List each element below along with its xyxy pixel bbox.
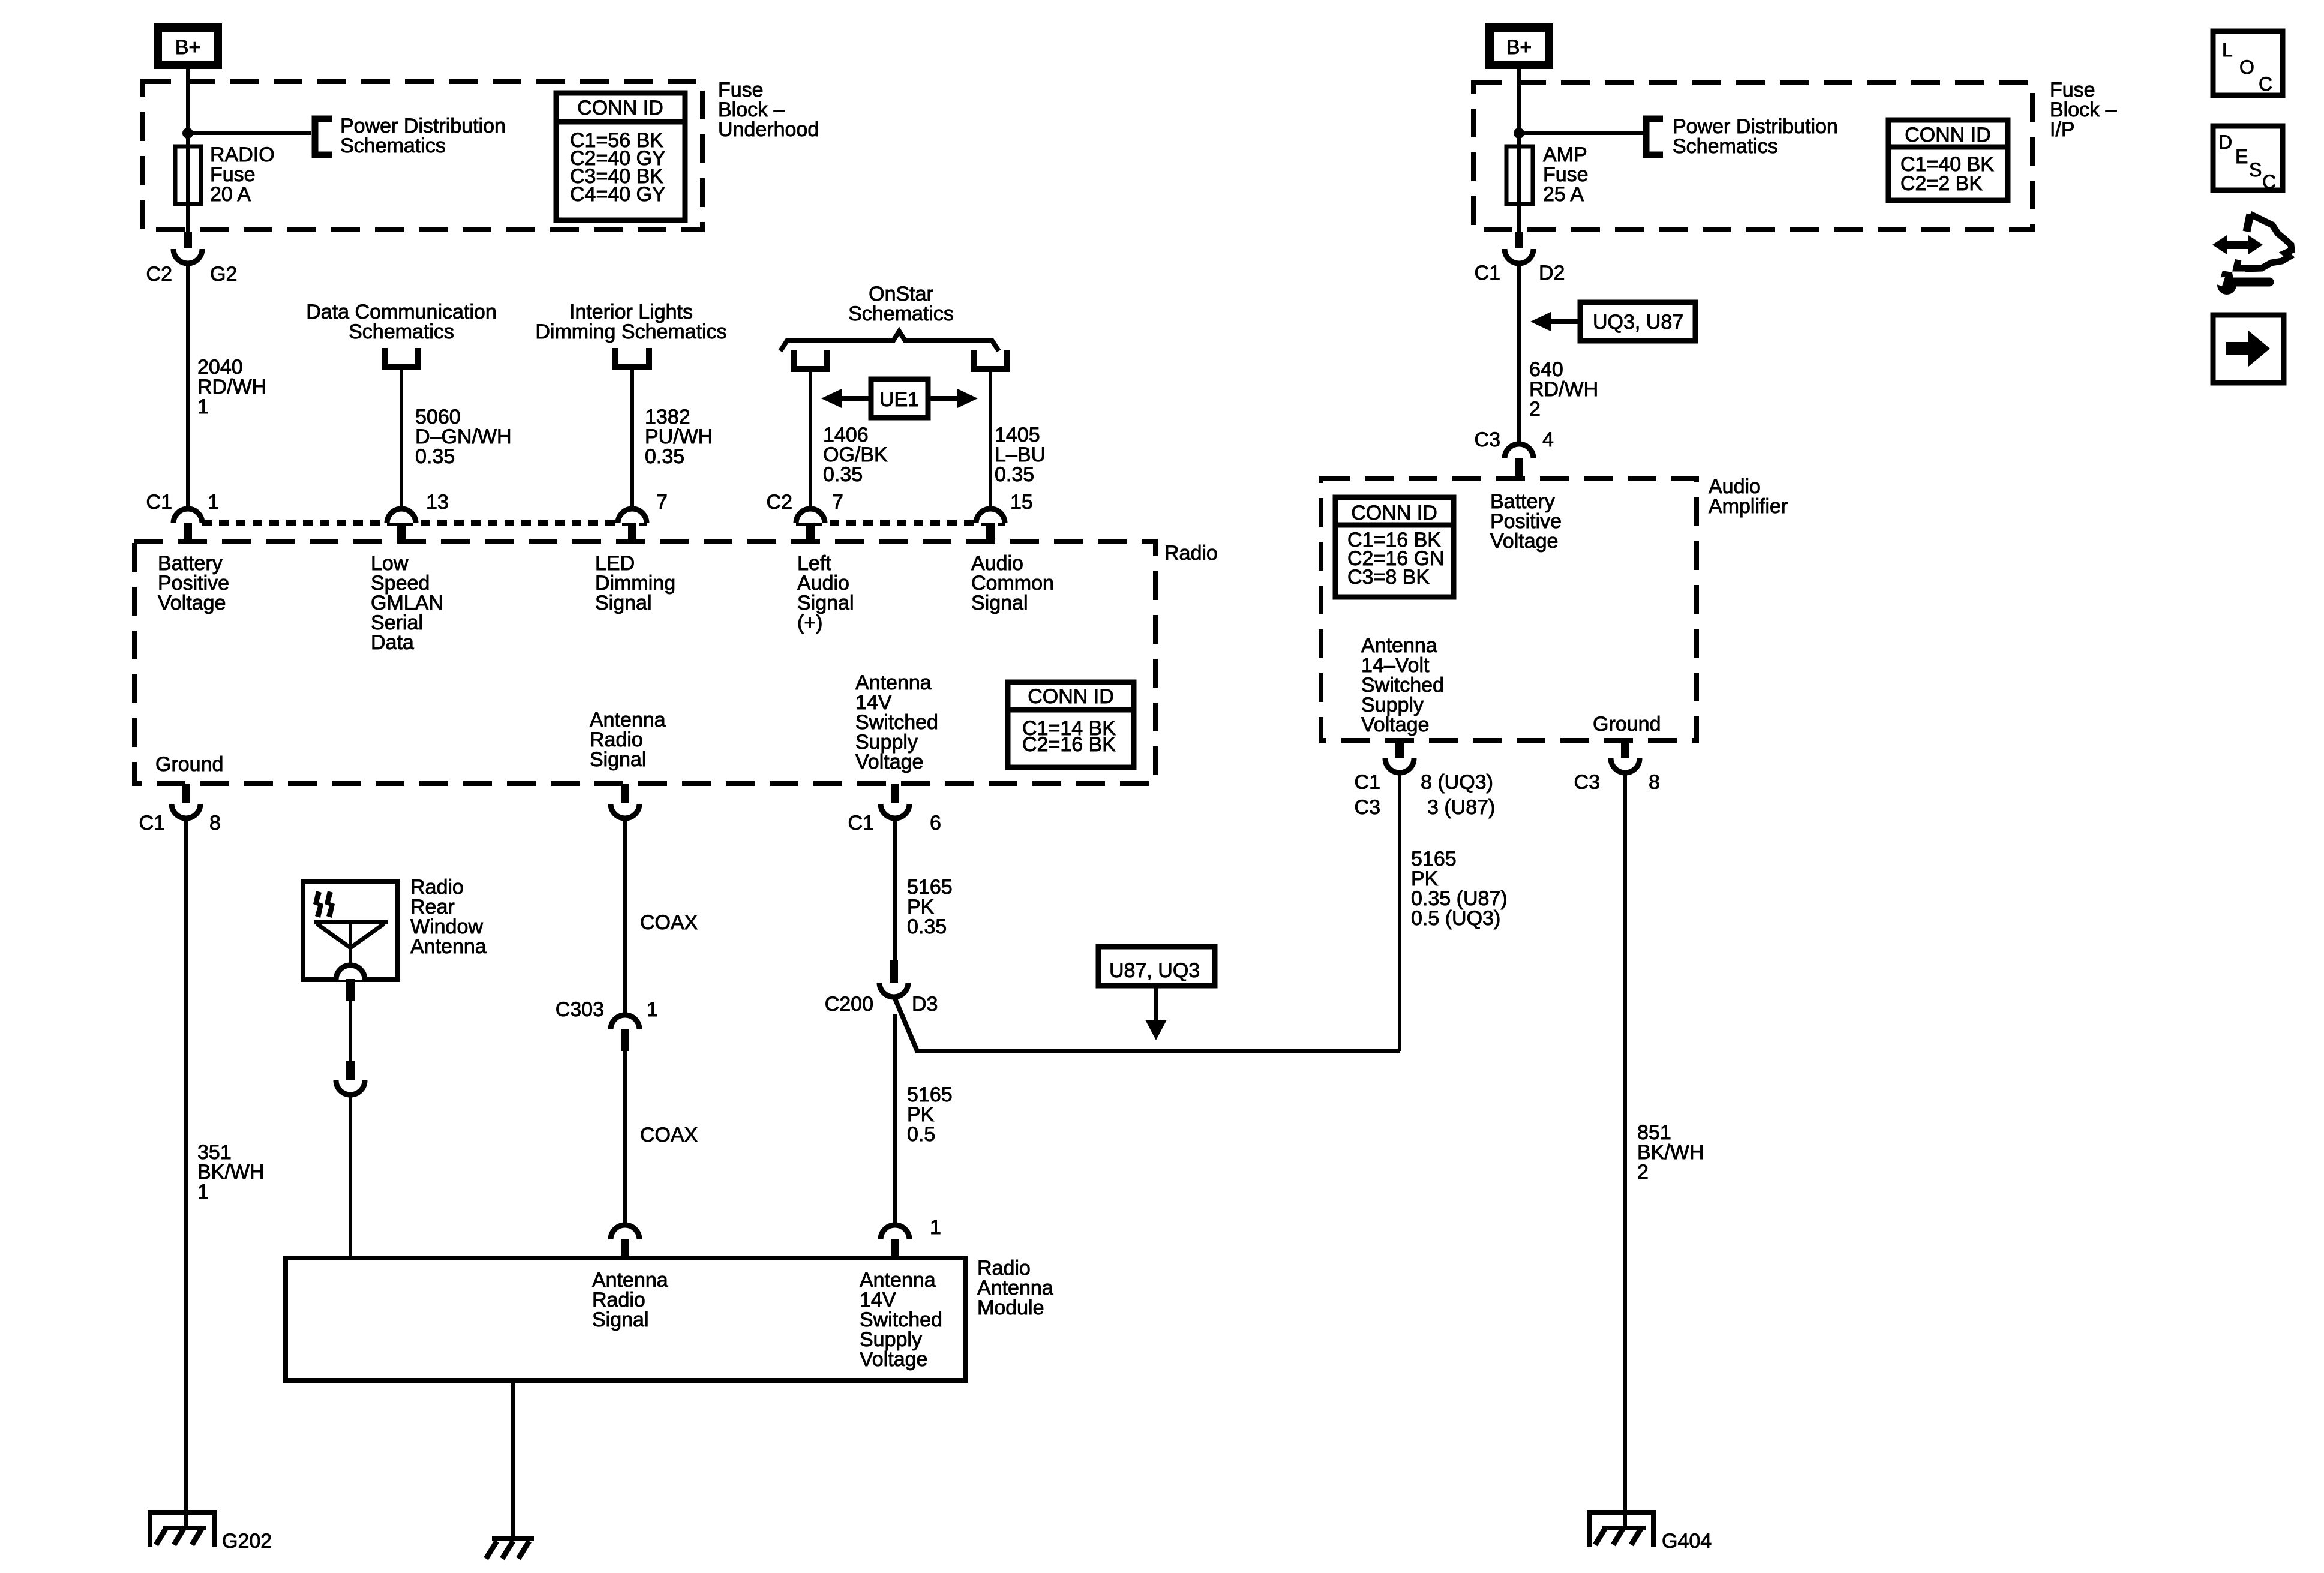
audio amplifier dashed box xyxy=(1321,479,1697,740)
svg-text:C3: C3 xyxy=(1574,771,1600,794)
bracket OnStar link right xyxy=(974,350,1007,369)
wire 351 BK/WH to G202 xyxy=(184,818,188,1529)
svg-text:D2: D2 xyxy=(1539,262,1565,284)
svg-text:Schematics: Schematics xyxy=(1673,135,1778,158)
wire junction to Power Distribution bracket xyxy=(188,131,311,135)
svg-text:Voltage: Voltage xyxy=(1490,530,1558,553)
svg-text:G404: G404 xyxy=(1662,1530,1712,1553)
svg-text:C1: C1 xyxy=(146,491,172,514)
svg-text:0.5: 0.5 xyxy=(907,1123,935,1146)
svg-text:4: 4 xyxy=(1542,428,1554,451)
svg-text:UQ3, U87: UQ3, U87 xyxy=(1593,311,1683,334)
connector C1/C3 below amplifier (antenna supply) xyxy=(1395,740,1404,758)
svg-text:Signal: Signal xyxy=(971,592,1028,614)
svg-text:CONN ID: CONN ID xyxy=(1028,685,1114,708)
bracket OnStar link left xyxy=(794,350,827,369)
svg-text:8 (UQ3): 8 (UQ3) xyxy=(1421,771,1493,794)
svg-text:Underhood: Underhood xyxy=(718,118,819,141)
svg-text:C2: C2 xyxy=(767,491,792,514)
svg-text:CONN ID: CONN ID xyxy=(1351,502,1437,524)
coax wire radio to C303 xyxy=(623,818,627,1016)
svg-text:Schematics: Schematics xyxy=(848,302,954,325)
svg-text:Ground: Ground xyxy=(155,753,223,776)
svg-text:G202: G202 xyxy=(222,1530,272,1553)
antenna signal marks xyxy=(313,891,323,918)
option box UQ3, U87 with left arrow xyxy=(1580,302,1695,341)
wire junction to Power Distribution bracket (right) xyxy=(1519,131,1643,135)
wire B+ to AMP fuse xyxy=(1517,65,1521,151)
module ground wire xyxy=(511,1380,515,1541)
antenna lead to module xyxy=(346,979,355,1001)
bracket to Power Distribution Schematics (right) xyxy=(1646,119,1663,155)
svg-text:Voltage: Voltage xyxy=(855,751,923,773)
svg-text:0.5 (UQ3): 0.5 (UQ3) xyxy=(1411,907,1500,930)
svg-text:Signal: Signal xyxy=(590,748,647,771)
power symbol B+ (battery feed, left) xyxy=(158,28,218,65)
svg-text:1: 1 xyxy=(208,491,219,514)
svg-text:7: 7 xyxy=(656,491,668,514)
radio rear window antenna box xyxy=(303,881,397,980)
connector id table CONN ID (amplifier) xyxy=(1335,497,1454,597)
svg-text:C1: C1 xyxy=(848,812,874,834)
svg-text:0.35: 0.35 xyxy=(907,915,947,938)
svg-text:2: 2 xyxy=(1529,398,1541,421)
svg-text:25 A: 25 A xyxy=(1543,183,1584,206)
svg-text:C3: C3 xyxy=(1475,428,1500,451)
svg-text:1: 1 xyxy=(647,998,658,1021)
bracket to Power Distribution Schematics (left) xyxy=(315,119,332,155)
sidebar icon LOC xyxy=(2213,31,2283,95)
svg-text:C200: C200 xyxy=(825,993,873,1016)
svg-text:Data: Data xyxy=(371,631,414,654)
fuse block - I/P dashed box xyxy=(1473,83,2032,230)
svg-text:2: 2 xyxy=(1637,1161,1649,1184)
svg-text:Schematics: Schematics xyxy=(349,320,454,343)
bracket Interior Lights Dimming link xyxy=(615,348,649,367)
wire B+ to RADIO fuse xyxy=(186,65,190,151)
fuse RADIO 20 A xyxy=(186,148,190,234)
node junction at RADIO fuse top xyxy=(182,128,193,139)
svg-text:B+: B+ xyxy=(175,36,201,59)
svg-text:C2: C2 xyxy=(146,263,172,286)
sidebar icon vehicle with double arrow and wrench xyxy=(2247,214,2250,232)
svg-text:0.35: 0.35 xyxy=(823,463,863,486)
connector id table CONN ID (fuse block I/P) xyxy=(1888,120,2008,200)
wire 5165 PK 0.35 radio to C200 xyxy=(893,818,897,984)
svg-text:L: L xyxy=(2222,39,2233,61)
radio antenna module box xyxy=(286,1258,966,1380)
svg-text:1: 1 xyxy=(197,1181,209,1203)
svg-text:C1: C1 xyxy=(139,812,165,834)
svg-text:Radio: Radio xyxy=(1164,542,1218,565)
svg-text:Signal: Signal xyxy=(592,1308,649,1331)
svg-text:15: 15 xyxy=(1010,491,1033,514)
svg-text:Dimming Schematics: Dimming Schematics xyxy=(535,320,726,343)
coax wire C303 to antenna module xyxy=(623,1051,627,1260)
connector C2/G2 below fuse block xyxy=(184,232,192,248)
power symbol B+ (battery feed, right) xyxy=(1490,28,1549,65)
svg-text:C: C xyxy=(2259,73,2272,95)
connector id table CONN ID (fuse block underhood) xyxy=(556,93,685,220)
svg-text:C3=8 BK: C3=8 BK xyxy=(1347,566,1430,589)
svg-text:COAX: COAX xyxy=(640,911,698,934)
svg-text:C3: C3 xyxy=(1355,796,1380,819)
svg-text:1: 1 xyxy=(930,1216,941,1239)
wire 640 RD/WH to amplifier xyxy=(1517,263,1521,445)
in-line connector C303 pin 1 xyxy=(611,1015,639,1029)
in-line connector C200-D3 xyxy=(890,960,898,983)
svg-text:C: C xyxy=(2262,171,2276,193)
connector pin 1 at antenna module xyxy=(881,1225,909,1239)
svg-text:U87, UQ3: U87, UQ3 xyxy=(1109,959,1200,982)
svg-text:Module: Module xyxy=(977,1296,1044,1319)
svg-text:1: 1 xyxy=(197,395,209,418)
connector pin C2-7 at radio (left audio) xyxy=(796,509,825,523)
svg-text:8: 8 xyxy=(209,812,221,834)
connector below radio antenna signal (coax) xyxy=(621,784,629,803)
svg-text:8: 8 xyxy=(1649,771,1660,794)
wire 1382 PU/WH to radio xyxy=(630,366,634,510)
svg-text:6: 6 xyxy=(930,812,941,834)
fuse block - underhood dashed box xyxy=(142,82,702,230)
svg-text:COAX: COAX xyxy=(640,1124,698,1146)
svg-text:(+): (+) xyxy=(797,611,823,634)
svg-text:UE1: UE1 xyxy=(879,388,919,411)
svg-text:Amplifier: Amplifier xyxy=(1709,495,1788,518)
svg-text:Voltage: Voltage xyxy=(158,592,226,614)
connector C1/D2 below fuse block I/P xyxy=(1515,232,1523,248)
svg-text:Voltage: Voltage xyxy=(860,1348,927,1371)
svg-text:G2: G2 xyxy=(210,263,237,286)
sidebar icon DESC xyxy=(2213,126,2283,190)
connector pin 15 at radio (audio common) xyxy=(976,509,1005,523)
svg-text:0.35: 0.35 xyxy=(415,445,455,468)
svg-text:0.35: 0.35 xyxy=(645,445,684,468)
antenna symbol xyxy=(314,920,388,924)
svg-text:C2=2 BK: C2=2 BK xyxy=(1900,172,1983,195)
svg-text:C2=16 BK: C2=16 BK xyxy=(1022,733,1116,756)
svg-text:CONN ID: CONN ID xyxy=(1905,124,1991,146)
wire 5060 D-GN/WH to radio xyxy=(400,366,403,510)
wire 1406 OG/BK to radio xyxy=(809,368,812,510)
brace over OnStar wires xyxy=(780,331,999,351)
node junction at AMP fuse top xyxy=(1514,128,1524,139)
wire 2040 RD/WH to radio xyxy=(186,263,190,510)
svg-text:C4=40 GY: C4=40 GY xyxy=(570,183,666,206)
svg-text:CONN ID: CONN ID xyxy=(577,97,663,119)
option box U87, UQ3 with down arrow xyxy=(1098,947,1215,986)
wire 1405 L-BU to radio xyxy=(989,368,992,510)
svg-text:C1: C1 xyxy=(1355,771,1380,794)
svg-text:7: 7 xyxy=(832,491,843,514)
connector pin C1-1 at radio (battery feed) xyxy=(173,509,202,523)
connector pin 13 at radio (GMLAN) xyxy=(387,509,416,523)
wire C200 to antenna module via splice xyxy=(894,996,1400,1051)
module chassis ground xyxy=(492,1536,534,1541)
connector pin 7 at radio (LED dimming) xyxy=(618,509,647,523)
ground G202 xyxy=(150,1512,214,1547)
svg-text:Signal: Signal xyxy=(595,592,652,614)
sidebar icon forward arrow xyxy=(2213,315,2284,383)
svg-text:Schematics: Schematics xyxy=(340,134,446,157)
svg-text:D: D xyxy=(2218,131,2232,153)
svg-text:C303: C303 xyxy=(556,998,604,1021)
ground G404 xyxy=(1589,1512,1653,1547)
svg-text:Antenna: Antenna xyxy=(410,935,487,958)
svg-text:D3: D3 xyxy=(912,993,938,1016)
connector id table CONN ID (radio) xyxy=(1008,682,1134,767)
svg-text:I/P: I/P xyxy=(2050,118,2075,141)
dotted connector-face line at radio C1 pins xyxy=(202,520,647,526)
svg-text:0.35: 0.35 xyxy=(995,463,1034,486)
svg-text:C1: C1 xyxy=(1475,262,1500,284)
connector at antenna module (coax input) xyxy=(611,1225,639,1239)
wire 851 BK/WH to G404 xyxy=(1623,773,1627,1529)
wire amplifier antenna supply to splice xyxy=(1398,773,1401,1051)
connector C3-8 below amplifier (ground) xyxy=(1621,740,1629,758)
Radio dashed box xyxy=(134,541,1155,784)
svg-text:S: S xyxy=(2249,159,2262,181)
svg-text:O: O xyxy=(2239,56,2254,78)
dotted connector-face line at radio C2 pins xyxy=(796,520,1005,526)
bracket Data Communication link xyxy=(385,348,418,367)
connector C1-6 below radio (antenna supply) xyxy=(891,784,899,803)
svg-text:Ground: Ground xyxy=(1593,713,1661,736)
svg-text:20 A: 20 A xyxy=(210,183,251,206)
option box UE1 with arrows xyxy=(871,379,928,418)
svg-text:3 (U87): 3 (U87) xyxy=(1427,796,1495,819)
svg-text:E: E xyxy=(2235,146,2248,167)
svg-text:B+: B+ xyxy=(1506,36,1532,59)
fuse AMP 25 A xyxy=(1517,148,1521,234)
svg-text:13: 13 xyxy=(426,491,449,514)
svg-text:Voltage: Voltage xyxy=(1361,713,1429,736)
connector C1-8 below radio (ground wire) xyxy=(182,784,190,803)
